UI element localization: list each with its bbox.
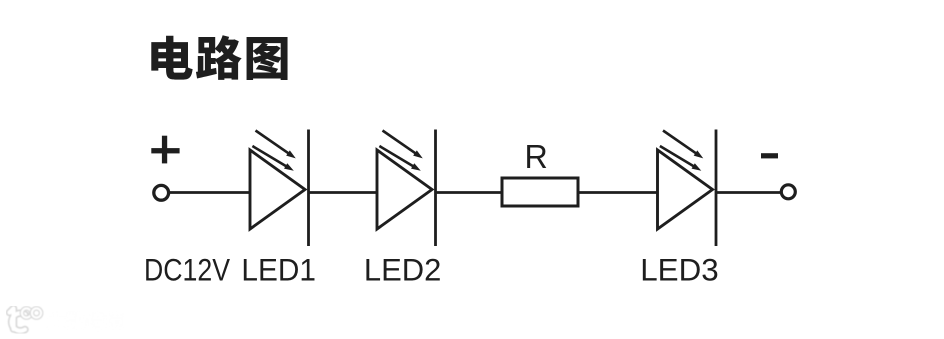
svg-text:LED1: LED1	[241, 252, 316, 288]
title 电路图	[151, 35, 287, 80]
terminal node (left, DC12V +)	[154, 185, 169, 200]
negative terminal symbol -	[761, 153, 778, 158]
LED LED2	[377, 130, 436, 247]
positive terminal symbol +	[151, 136, 179, 164]
wire: left terminal to LED1 anode	[169, 191, 251, 194]
svg-text:R: R	[525, 138, 548, 175]
LED LED1	[250, 130, 309, 247]
wire: LED1 cathode to LED2 anode	[310, 191, 378, 194]
svg-text:LED3: LED3	[640, 252, 719, 288]
LED LED3	[658, 130, 717, 247]
resistor R	[502, 178, 578, 206]
terminal node (right, negative)	[781, 185, 795, 199]
svg-text:DC12V: DC12V	[144, 252, 231, 288]
watermark text 大数跨境	[47, 311, 124, 330]
watermark logo	[10, 308, 42, 330]
wire: LED2 cathode to resistor R	[437, 191, 503, 194]
svg-text:LED2: LED2	[364, 252, 442, 288]
wire: resistor R to LED3 anode	[578, 191, 658, 194]
wire: LED3 cathode to right terminal	[717, 191, 781, 194]
